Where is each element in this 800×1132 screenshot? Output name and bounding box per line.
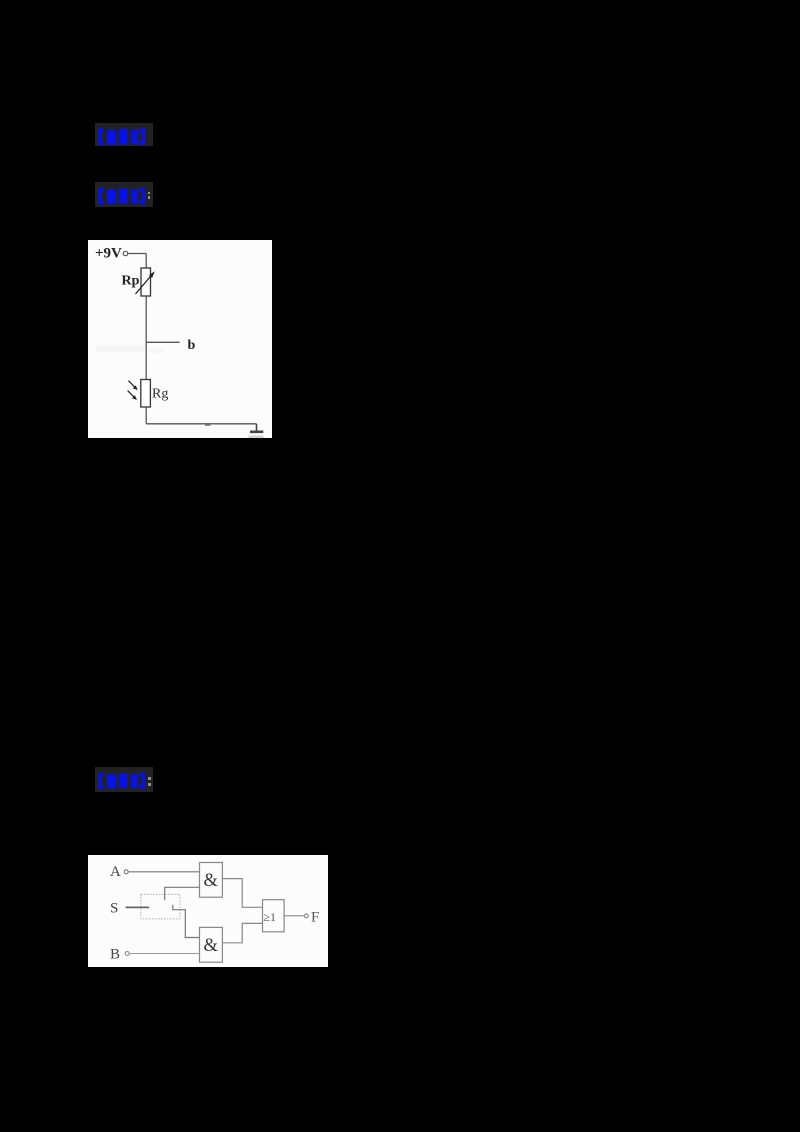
terminal F (304, 914, 308, 918)
svg-text:Rp: Rp (122, 274, 140, 289)
wire: down to Rp (145, 254, 147, 269)
svg-text:A: A (110, 864, 121, 880)
wire gate2 output to or gate (222, 923, 262, 942)
grey colon after label 2 (148, 192, 151, 195)
wire gate1 output to or gate (222, 879, 262, 908)
svg-text:&: & (204, 871, 219, 891)
switch lower contact wire to gate2 (173, 905, 200, 938)
terminal B (125, 952, 129, 956)
faint artifact streak (96, 345, 145, 352)
and gate U1 box (200, 863, 223, 898)
wire B to gate2 (129, 953, 199, 955)
ground bar (250, 430, 263, 433)
or gate U3 box (263, 900, 285, 932)
wire: Rg to bottom rail (145, 407, 147, 424)
figure 2 : logic gate diagram (88, 855, 328, 967)
svg-text:Rg: Rg (152, 387, 168, 402)
wire: terminal to corner (128, 253, 147, 255)
wire A to gate1 (128, 871, 199, 873)
node b stub wire (146, 341, 179, 343)
svg-text:&: & (204, 936, 219, 956)
svg-text:≥1: ≥1 (263, 910, 276, 924)
wire S (126, 906, 150, 908)
blue heading label 2 (95, 182, 153, 207)
svg-text:S: S (110, 901, 118, 917)
potentiometer arrow through Rp (136, 274, 153, 294)
bottom rail wire (146, 423, 256, 425)
light arrow 1 (128, 381, 135, 388)
light arrow 2 (128, 391, 135, 398)
wire or gate output (284, 915, 304, 917)
switch dashed box (141, 894, 180, 919)
svg-text:+9V: +9V (95, 246, 122, 262)
blue heading label 3 (95, 767, 153, 792)
figure 1 : voltage divider circuit (88, 240, 272, 438)
resistor Rg body (141, 380, 151, 408)
input terminal circle (123, 251, 127, 255)
ground stem (256, 424, 258, 431)
wire artifact nub (205, 424, 211, 426)
terminal A (124, 870, 128, 874)
blue heading label 1 (95, 123, 153, 146)
svg-text:B: B (110, 947, 120, 963)
ground faint second bar (248, 436, 263, 439)
svg-text:b: b (188, 338, 196, 353)
svg-text:F: F (311, 910, 319, 926)
resistor Rp body (141, 268, 151, 296)
wire S upper branch to gate1 (165, 887, 200, 900)
grey colon after label 3 (148, 777, 151, 780)
wire: Rp to Rg (145, 296, 147, 380)
and gate U2 box (200, 927, 223, 962)
